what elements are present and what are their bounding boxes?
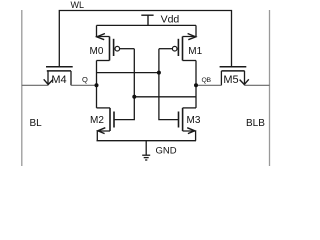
transistor M0 (PMOS) xyxy=(97,25,120,60)
wire M4 to node Q xyxy=(71,84,97,86)
wire node Q vertical xyxy=(96,61,98,108)
svg-text:M1: M1 xyxy=(188,46,202,57)
svg-text:Vdd: Vdd xyxy=(161,14,180,26)
svg-text:QB: QB xyxy=(202,77,212,84)
svg-text:M2: M2 xyxy=(90,115,104,126)
transistor M2 (NMOS) xyxy=(97,108,115,141)
svg-text:M3: M3 xyxy=(187,115,201,126)
junction node QB xyxy=(194,83,198,87)
wire node QB vertical xyxy=(195,61,197,108)
transistor M3 (NMOS) xyxy=(179,108,197,141)
wire BL to M4 xyxy=(22,84,48,86)
svg-text:WL: WL xyxy=(71,0,85,10)
wire GND rail xyxy=(97,140,197,142)
power Vdd symbol xyxy=(141,15,153,25)
bit line BLB xyxy=(269,10,271,166)
transistor M4 (access NMOS) xyxy=(44,67,73,86)
svg-text:M5: M5 xyxy=(223,74,238,86)
junction gate net B xyxy=(132,95,136,99)
wire Vdd rail xyxy=(97,24,197,26)
transistor M5 (access NMOS) xyxy=(220,67,249,86)
wire M0 gate lead xyxy=(120,48,135,50)
wire M1 gate lead xyxy=(159,48,172,50)
svg-text:BLB: BLB xyxy=(246,118,265,129)
svg-text:M0: M0 xyxy=(90,46,104,57)
ground symbol xyxy=(142,141,150,160)
bit line BL xyxy=(21,10,23,166)
wire M5 to BLB xyxy=(245,84,270,86)
svg-text:GND: GND xyxy=(156,146,177,157)
svg-text:Q: Q xyxy=(82,75,88,84)
junction gate net A xyxy=(157,71,161,75)
junction node Q xyxy=(95,83,99,87)
wire gate line of M1/M3 xyxy=(159,49,179,120)
svg-text:BL: BL xyxy=(30,118,43,129)
svg-text:M4: M4 xyxy=(51,74,66,86)
wire Q to gates of M1/M3 xyxy=(97,72,159,74)
wire gate line of M0/M2 xyxy=(114,49,134,120)
wire WL (word line with gate drops to M4 and M5) xyxy=(59,11,231,67)
wire QB to gates of M0/M2 xyxy=(134,96,196,98)
wire node QB to M5 xyxy=(196,84,221,86)
transistor M1 (PMOS) xyxy=(172,25,196,60)
